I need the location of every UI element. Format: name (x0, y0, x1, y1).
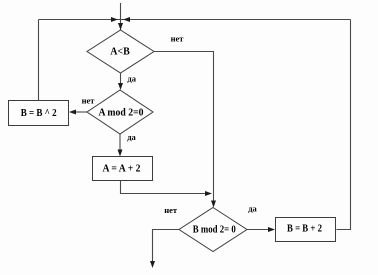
svg-text:нет: нет (171, 34, 185, 44)
svg-text:да: да (248, 204, 257, 214)
svg-text:A mod 2=0: A mod 2=0 (99, 108, 144, 119)
svg-text:B = B + 2: B = B + 2 (287, 224, 322, 235)
svg-text:нет: нет (164, 205, 178, 215)
svg-text:A<B: A<B (110, 47, 130, 58)
svg-text:да: да (127, 132, 136, 142)
svg-text:да: да (127, 74, 136, 84)
svg-text:A = A + 2: A = A + 2 (103, 164, 141, 175)
svg-text:B = B ^ 2: B = B ^ 2 (21, 108, 57, 119)
svg-text:нет: нет (82, 96, 96, 106)
svg-text:B mod 2= 0: B mod 2= 0 (193, 225, 236, 236)
